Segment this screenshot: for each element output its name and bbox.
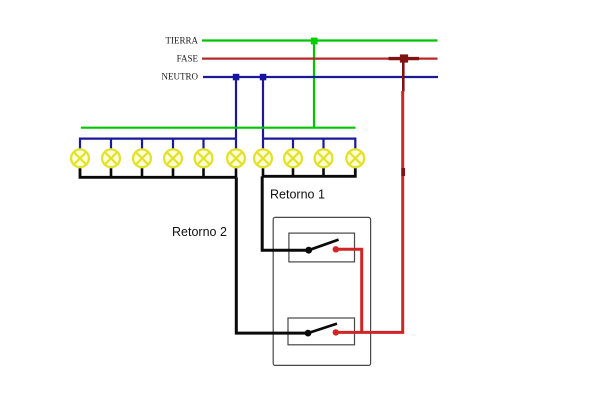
lamp L8 xyxy=(284,149,302,167)
switch S1 common contact (red) xyxy=(333,246,339,252)
lamp L7 xyxy=(254,149,272,167)
switch S1 body box xyxy=(289,233,355,262)
junction blob on red feed wire xyxy=(401,168,405,176)
wire: lamp earth bus (green) xyxy=(81,127,356,129)
wire: TIERRA line xyxy=(202,39,438,41)
svg-text:Retorno 1: Retorno 1 xyxy=(270,188,325,202)
switch S1 pole contact xyxy=(305,247,312,254)
svg-text:NEUTRO: NEUTRO xyxy=(162,72,199,82)
switch S2 common contact (red) xyxy=(333,329,339,335)
lamp L10 xyxy=(346,149,364,167)
lamp L9 xyxy=(315,149,333,167)
switch enclosure box xyxy=(273,217,370,365)
junction on TIERRA line xyxy=(311,38,318,45)
wire: lamp return stubs (black) xyxy=(111,168,324,178)
wire: return bus right segment (black) xyxy=(262,168,355,177)
wire: maroon vertical from FASE junction xyxy=(402,59,405,92)
lamp L6 xyxy=(227,149,245,167)
switch S1 lever xyxy=(309,240,339,251)
switch S2 lever xyxy=(308,324,337,334)
wire: FASE line xyxy=(202,57,438,59)
lamp L3 xyxy=(133,149,151,167)
wire: red wire from S1 common down to S2 feed xyxy=(336,249,362,332)
wire: blue vertical drop from NEUTRO junction 2 xyxy=(262,77,264,139)
svg-text:TIERRA: TIERRA xyxy=(166,36,199,46)
svg-text:FASE: FASE xyxy=(177,54,199,64)
junction on NEUTRO line (right) xyxy=(260,74,267,81)
switch S2 body box xyxy=(288,318,355,345)
wire: green vertical drop from TIERRA to lamp earth bus xyxy=(313,41,315,129)
lamp L4 xyxy=(164,149,182,167)
wire: neutral bus left segment (blue) xyxy=(80,139,236,149)
junction on NEUTRO line (left) xyxy=(233,74,240,81)
wire: neutral bus right segment (blue) xyxy=(263,139,355,149)
lamp L5 xyxy=(195,149,213,167)
lamp L1 xyxy=(71,149,89,167)
wire: Retorno 1 black wire to switch S1 xyxy=(262,176,309,250)
wire: return bus left segment (black) xyxy=(80,168,236,178)
wire: red FASE feed wire to switches xyxy=(336,91,403,332)
junction on FASE line (maroon tap) xyxy=(389,54,420,62)
wire: lamp neutral stubs (blue) xyxy=(111,139,324,149)
wire: blue vertical drop from NEUTRO junction 1 xyxy=(235,77,237,139)
wire: NEUTRO line xyxy=(203,76,438,78)
lamp L2 xyxy=(102,149,120,167)
svg-text:Retorno 2: Retorno 2 xyxy=(172,225,227,239)
switch S2 pole contact xyxy=(305,330,312,337)
wire: Retorno 2 black wire to switch S2 xyxy=(236,177,308,333)
